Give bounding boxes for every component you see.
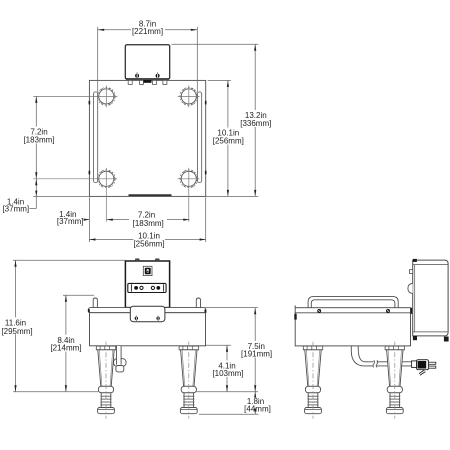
dimension 4.1in [103mm] <box>206 345 245 392</box>
top view: bottom edge extension to right dims <box>206 195 259 197</box>
dimension 8.7in [221mm] top <box>98 20 198 92</box>
dimension 8.4in [214mm] front <box>49 295 94 392</box>
front view: body <box>90 313 206 346</box>
side view: box latch <box>408 270 413 294</box>
top view: leg nut top-left <box>97 88 115 106</box>
top view: left mounting rail <box>93 92 97 183</box>
front view: right rail post <box>196 298 200 308</box>
svg-text:[221mm]: [221mm] <box>132 27 163 36</box>
dimension 10.1in [256mm] bottom <box>89 231 205 249</box>
top view: box screws <box>135 72 160 79</box>
top view: edge weld ticks <box>89 101 207 175</box>
top view: leg nut top-right <box>180 88 198 106</box>
dimension 1.8in [44mm] <box>240 392 273 415</box>
svg-text:[214mm]: [214mm] <box>50 344 81 353</box>
side view: rear leg <box>385 342 404 419</box>
front view: bracket screw left <box>135 316 138 321</box>
side view: drain tube and power cord <box>351 346 411 366</box>
top view: leg nut bottom-left <box>97 170 115 188</box>
svg-text:[103mm]: [103mm] <box>212 369 243 378</box>
dimension 1.4in [37mm] bottom <box>57 210 90 226</box>
svg-text:7.2in: 7.2in <box>138 210 155 219</box>
svg-text:[183mm]: [183mm] <box>23 136 54 145</box>
front view: control box <box>125 259 169 308</box>
svg-text:[37mm]: [37mm] <box>2 204 29 213</box>
dimension 7.5in [191mm] <box>204 308 274 392</box>
side view: body <box>294 305 412 346</box>
side view: rear control box <box>413 260 448 336</box>
top view: centerlines <box>33 85 199 221</box>
top view: control box <box>125 45 169 81</box>
front view: drain p-trap <box>114 346 126 372</box>
front view: right leg <box>179 342 198 419</box>
front view: sprayhead bracket <box>130 306 165 322</box>
svg-text:[256mm]: [256mm] <box>213 137 244 146</box>
front view: top rim band <box>88 308 206 314</box>
dimension 13.2in [336mm] right <box>172 44 277 196</box>
front view: left rail post <box>93 298 97 308</box>
front view: bracket screw right <box>156 316 159 321</box>
foot bottom extension line <box>199 413 258 415</box>
front view: badge <box>143 266 152 275</box>
svg-text:[44mm]: [44mm] <box>244 405 271 414</box>
dimension 7.2in [183mm] bottom <box>107 210 190 228</box>
dimension 1.4in [37mm] left lower <box>2 179 89 214</box>
top view: base square outline <box>89 80 205 196</box>
svg-text:[256mm]: [256mm] <box>133 240 164 249</box>
side view: body screw left <box>318 309 321 312</box>
side view: body screw right <box>387 309 390 312</box>
svg-text:[37mm]: [37mm] <box>57 217 84 226</box>
svg-text:[336mm]: [336mm] <box>240 119 271 128</box>
bottom dim row: extensions <box>89 197 205 242</box>
svg-text:[183mm]: [183mm] <box>133 219 164 228</box>
dimension 10.1in [256mm] right <box>208 80 246 196</box>
counter reference line <box>13 391 258 393</box>
front view: control strip <box>128 283 166 292</box>
top view: bottom lip (thick) <box>129 194 172 196</box>
side view: cord break symbol <box>373 360 378 367</box>
svg-text:[191mm]: [191mm] <box>241 349 272 358</box>
top view: dark center tab <box>143 80 151 83</box>
top view: leg nut bottom-right <box>180 170 198 188</box>
side view: handle <box>308 297 398 308</box>
top view: right mounting rail <box>197 92 201 183</box>
dimension 11.6in [295mm] front left <box>1 260 125 392</box>
side view: power plug <box>412 360 436 376</box>
side view: box corner marks and feet <box>413 259 449 342</box>
top view: box tabs <box>128 80 167 84</box>
side view: front leg <box>303 342 322 419</box>
front view: left leg <box>96 342 115 419</box>
svg-text:[295mm]: [295mm] <box>1 327 32 336</box>
dimension 7.2in [183mm] left <box>21 96 57 178</box>
